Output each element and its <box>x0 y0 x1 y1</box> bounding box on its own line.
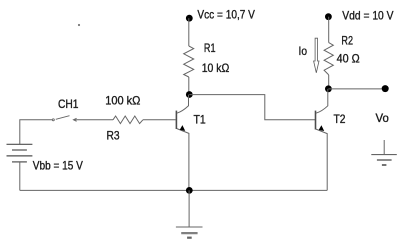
wire bottom rail <box>20 189 327 191</box>
svg-text:T2: T2 <box>334 112 346 126</box>
svg-text:T1: T1 <box>194 113 206 127</box>
ground right <box>371 140 397 165</box>
resistor R1 <box>184 46 194 77</box>
transistor T1 <box>176 95 189 191</box>
node A <box>186 91 193 98</box>
wire Vcc to R1 <box>188 18 190 46</box>
svg-text:40 Ω: 40 Ω <box>337 51 360 65</box>
stray mark <box>78 24 80 26</box>
wire Vdd to R2 <box>328 17 330 43</box>
resistor R2 <box>324 43 333 75</box>
svg-text:Vo: Vo <box>376 111 390 125</box>
node bottom <box>186 187 193 194</box>
wire battery to switch <box>20 120 52 145</box>
svg-text:R1: R1 <box>204 41 216 55</box>
wire battery to bottom rail <box>19 162 21 191</box>
svg-text:R2: R2 <box>341 33 353 47</box>
svg-text:CH1: CH1 <box>58 97 79 111</box>
wire R3 to T1 base <box>143 119 176 121</box>
svg-text:R3: R3 <box>107 129 120 143</box>
current arrow Io <box>314 38 319 73</box>
wire R1 to node A <box>188 77 190 95</box>
wire node A to T2 base <box>189 95 315 120</box>
resistor R3 <box>113 116 143 124</box>
node B <box>325 85 332 92</box>
node Vcc <box>186 15 193 22</box>
wire node B to Vo node <box>328 88 385 90</box>
node Vo <box>382 85 389 92</box>
svg-text:Vdd = 10 V: Vdd = 10 V <box>342 9 393 23</box>
battery Vbb <box>7 144 33 162</box>
svg-text:Vcc = 10,7 V: Vcc = 10,7 V <box>197 7 255 21</box>
ground center <box>176 190 203 237</box>
node Vdd <box>325 13 332 20</box>
wire R2 to node B <box>328 75 330 89</box>
svg-text:Io: Io <box>299 44 308 58</box>
svg-text:100 kΩ: 100 kΩ <box>105 94 140 108</box>
transistor T2 <box>316 89 328 190</box>
svg-text:Vbb = 15 V: Vbb = 15 V <box>33 159 83 173</box>
wire switch to R3 <box>77 119 114 121</box>
svg-text:10 kΩ: 10 kΩ <box>202 61 230 75</box>
switch CH1 <box>52 116 77 122</box>
